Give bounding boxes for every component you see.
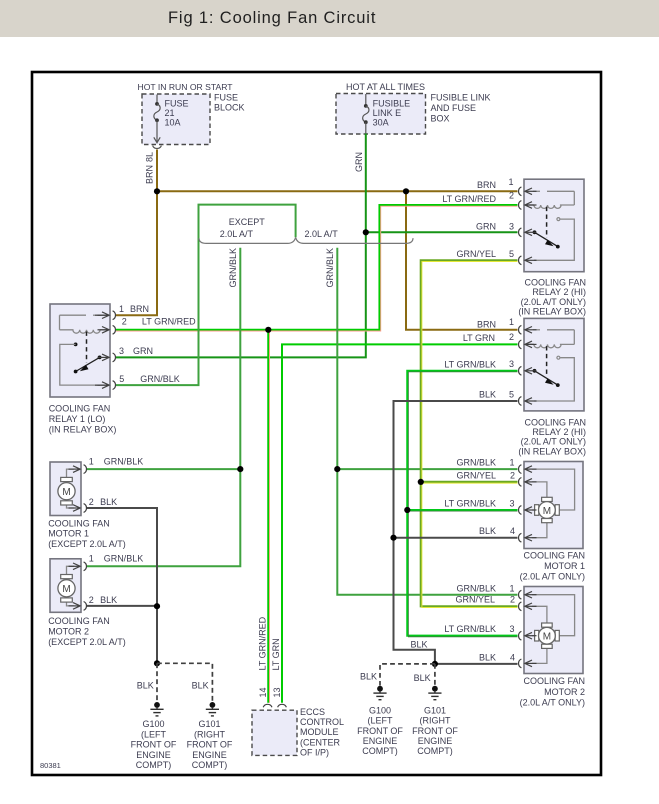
wire LT GRN/RED relay 1 pin 2 to relay 2 (upper) pin 2 xyxy=(116,191,518,332)
svg-text:BLK: BLK xyxy=(100,497,117,507)
label EXCEPT 2.0L A/T xyxy=(220,217,265,239)
relay 1 pin 2 arrow xyxy=(100,327,109,334)
wire BRN from fuse 21 to relay 1 pin 1 xyxy=(116,150,157,316)
svg-text:2.0L A/T: 2.0L A/T xyxy=(220,229,254,239)
svg-text:RELAY 2 (HI): RELAY 2 (HI) xyxy=(532,287,586,297)
relay 2 upper pin 2 arrow xyxy=(525,202,534,209)
svg-text:3: 3 xyxy=(510,499,515,509)
cooling fan motor 1 (2.0L A/T only) box xyxy=(524,462,583,549)
svg-text:BLK: BLK xyxy=(100,595,117,605)
svg-text:GRN/BLK: GRN/BLK xyxy=(140,374,180,384)
svg-text:GRN: GRN xyxy=(476,222,496,232)
cooling fan relay 1 (LO) box xyxy=(50,304,110,397)
svg-text:M: M xyxy=(62,487,70,498)
cooling fan motor 2 (2.0L A/T only) box xyxy=(524,587,583,674)
motor 2 right caption xyxy=(520,676,585,707)
svg-text:BLK: BLK xyxy=(411,640,428,650)
wire BLK right ground junction to right motor 2 pin 4 xyxy=(435,652,518,664)
svg-text:OF I/P): OF I/P) xyxy=(300,747,329,757)
svg-text:3: 3 xyxy=(509,359,514,369)
svg-text:FUSE: FUSE xyxy=(214,93,238,103)
motor 1 right internal leads xyxy=(532,469,575,538)
svg-text:1: 1 xyxy=(89,554,94,564)
svg-text:HOT AT ALL TIMES: HOT AT ALL TIMES xyxy=(346,82,425,92)
ECCS control module (dashed box) xyxy=(252,707,344,757)
svg-text:GRN/BLK: GRN/BLK xyxy=(456,458,496,468)
junction BLK left motor 2 xyxy=(154,603,160,609)
relay 1 coil circuit xyxy=(60,315,102,333)
junction BLK right grounds xyxy=(432,661,438,667)
wire GRN/BLK branch to left motor 1 pin 1 xyxy=(86,468,240,470)
motor 1 right pin 1 connector xyxy=(519,465,537,474)
wire GRN branch to cooling fan relay 2 (upper) pin 3 xyxy=(366,222,518,233)
svg-text:BRN: BRN xyxy=(477,180,496,190)
dashed BLK lead to ground G100 right xyxy=(360,664,435,686)
svg-text:2: 2 xyxy=(89,595,94,605)
wire GRN/BLK relay 1 pin 5 up and over to variant brace xyxy=(116,205,296,386)
svg-text:1: 1 xyxy=(510,458,515,468)
svg-text:(EXCEPT 2.0L A/T): (EXCEPT 2.0L A/T) xyxy=(48,539,126,549)
motor 1 right pin 3 connector xyxy=(519,506,537,515)
wire BLK left motor 1 pin 2 down to left ground junction xyxy=(86,508,157,663)
svg-text:ENGINE: ENGINE xyxy=(418,736,453,746)
svg-text:M: M xyxy=(543,506,551,517)
svg-text:GRN/BLK: GRN/BLK xyxy=(456,584,496,594)
label GRN/YEL right motor 2 pin 2 xyxy=(455,594,515,604)
svg-text:LT GRN: LT GRN xyxy=(463,333,495,343)
svg-text:ECCS: ECCS xyxy=(300,707,325,717)
cooling fan motor 2 (except 2.0L A/T) box xyxy=(50,559,81,613)
relay 2 upper pin 1 connector xyxy=(519,187,537,196)
relay 2 upper caption xyxy=(518,278,586,317)
svg-text:LT GRN/BLK: LT GRN/BLK xyxy=(444,359,496,369)
relay 2 lower pin 5 connector xyxy=(519,397,537,406)
svg-text:ENGINE: ENGINE xyxy=(136,750,171,760)
svg-text:2: 2 xyxy=(509,191,514,201)
svg-text:ENGINE: ENGINE xyxy=(363,736,398,746)
svg-text:LT GRN/RED: LT GRN/RED xyxy=(142,317,196,327)
wire LT GRN/BLK relay 2 (lower) pin 3 to right motors pin 3 xyxy=(407,359,517,637)
svg-text:8L: 8L xyxy=(145,152,155,162)
wire GRN from fusible link to relay 1 pin 3 xyxy=(116,134,366,358)
motor 1 right caption xyxy=(520,550,585,581)
fuse block (dashed box) xyxy=(138,82,245,145)
ground G100 (left front of engine compt) right side xyxy=(357,686,403,756)
svg-text:4: 4 xyxy=(510,526,515,536)
junction GRN/BLK right xyxy=(334,466,340,472)
dashed BLK lead to ground G101 left xyxy=(157,663,212,701)
svg-text:2: 2 xyxy=(509,332,514,342)
svg-text:4: 4 xyxy=(510,652,515,662)
svg-text:LT GRN: LT GRN xyxy=(271,638,281,670)
svg-text:BLK: BLK xyxy=(137,681,154,691)
fusible link value labels xyxy=(373,99,411,128)
relay 2 upper switch arm xyxy=(533,230,560,248)
svg-text:(CENTER: (CENTER xyxy=(300,737,340,747)
motor 1 left caption xyxy=(48,518,126,549)
svg-text:2: 2 xyxy=(510,594,515,604)
wire GRN/YEL branch to right motor 1 pin 2 xyxy=(421,470,518,483)
svg-text:COOLING FAN: COOLING FAN xyxy=(523,550,585,560)
svg-text:RELAY 1 (LO): RELAY 1 (LO) xyxy=(49,414,106,424)
motor 2 right pin 2 connector xyxy=(519,602,537,611)
fusible link E 30A symbol xyxy=(363,94,369,134)
relay 2 lower fixed contact xyxy=(534,356,574,401)
svg-text:COOLING FAN: COOLING FAN xyxy=(48,616,110,626)
svg-text:2: 2 xyxy=(89,497,94,507)
ground G100 (left front of engine compt) xyxy=(131,702,177,770)
svg-text:M: M xyxy=(62,584,70,595)
relay 1 pin 2 connector xyxy=(98,325,116,334)
svg-text:GRN/YEL: GRN/YEL xyxy=(456,470,496,480)
svg-text:COMPT): COMPT) xyxy=(417,746,453,756)
motor 2 right internal leads xyxy=(532,595,575,664)
relay 1 pin labels xyxy=(119,304,196,384)
svg-text:FRONT OF: FRONT OF xyxy=(131,740,177,750)
svg-text:2: 2 xyxy=(122,317,127,327)
relay 1 caption xyxy=(49,404,117,435)
svg-text:COOLING FAN: COOLING FAN xyxy=(48,518,110,528)
wire GRN/BLK (2.0L A/T) down to right motors xyxy=(325,248,518,595)
dashed BLK lead to ground G100 left xyxy=(137,663,157,701)
relay 1 pin 1 connector xyxy=(98,311,116,320)
relay 1 pin 5 connector xyxy=(98,381,116,390)
svg-text:GRN/BLK: GRN/BLK xyxy=(228,248,238,288)
svg-text:BLK: BLK xyxy=(360,672,377,682)
svg-text:COOLING FAN: COOLING FAN xyxy=(49,404,111,414)
relay 1 pin 5 arrow xyxy=(95,382,109,389)
label LT GRN/BLK right motor 2 pin 3 xyxy=(444,624,514,634)
svg-text:BOX: BOX xyxy=(431,114,450,124)
svg-text:BLK: BLK xyxy=(479,390,496,400)
svg-text:COOLING FAN: COOLING FAN xyxy=(524,417,586,427)
svg-text:GRN/BLK: GRN/BLK xyxy=(325,248,335,288)
svg-text:MOTOR 1: MOTOR 1 xyxy=(544,561,585,571)
motor 2 left caption xyxy=(48,616,126,647)
relay 2 upper pin 1 arrow xyxy=(525,188,532,195)
svg-text:5: 5 xyxy=(119,374,124,384)
svg-text:ENGINE: ENGINE xyxy=(192,750,227,760)
relay 1 switch arm xyxy=(74,356,102,374)
svg-text:(IN RELAY BOX): (IN RELAY BOX) xyxy=(518,446,586,456)
svg-text:BRN: BRN xyxy=(477,320,496,330)
svg-text:LT GRN/BLK: LT GRN/BLK xyxy=(444,624,496,634)
svg-text:BLK: BLK xyxy=(479,652,496,662)
svg-text:COOLING FAN: COOLING FAN xyxy=(524,278,586,288)
svg-text:FRONT OF: FRONT OF xyxy=(412,726,458,736)
svg-text:(RIGHT: (RIGHT xyxy=(194,729,225,739)
svg-text:GRN: GRN xyxy=(133,346,153,356)
svg-text:EXCEPT: EXCEPT xyxy=(229,217,266,227)
wire BRN branch to cooling fan relay 2 (upper) pin 1 xyxy=(157,177,518,191)
svg-text:FUSE: FUSE xyxy=(165,99,189,109)
relay 2 upper coil circuit xyxy=(533,191,574,208)
wire LT GRN/BLK branch to right motor 1 pin 3 xyxy=(407,499,517,512)
motor 1 left pin labels xyxy=(89,456,144,507)
svg-text:10A: 10A xyxy=(165,118,181,128)
svg-text:MOTOR 2: MOTOR 2 xyxy=(544,687,585,697)
motor 2 right pin 4 connector xyxy=(519,659,537,668)
svg-text:BRN: BRN xyxy=(130,304,149,314)
svg-text:5: 5 xyxy=(509,390,514,400)
fuse 21 10A symbol xyxy=(153,95,162,149)
junction LT GRN/RED branch xyxy=(265,327,271,333)
title bar xyxy=(0,0,659,37)
ground G101 (right front of engine compt) right side xyxy=(412,686,458,756)
wire GRN/BLK (except 2.0L A/T) down to left motors xyxy=(86,248,240,567)
motor 2 left pin 2 connector xyxy=(69,602,87,611)
motor 2 left internal leads xyxy=(67,566,75,606)
motor 2 left motor symbol xyxy=(58,575,75,603)
svg-text:1: 1 xyxy=(509,317,514,327)
svg-text:3: 3 xyxy=(119,346,124,356)
wire BRN branch to cooling fan relay 2 (lower) pin 1 xyxy=(406,191,518,329)
motor 1 right pin 2 connector xyxy=(519,478,537,487)
svg-text:MOTOR 1: MOTOR 1 xyxy=(48,529,89,539)
svg-text:GRN/YEL: GRN/YEL xyxy=(456,249,496,259)
svg-text:1: 1 xyxy=(89,456,94,466)
svg-text:(LEFT: (LEFT xyxy=(367,716,393,726)
junction BLK right motor 1 xyxy=(390,535,396,541)
wire BLK left motor 2 pin 2 xyxy=(86,605,157,607)
ECCS pin 14 connector xyxy=(263,704,272,707)
motor 2 left pin 1 connector xyxy=(69,562,87,571)
junction GRN branch xyxy=(363,229,369,235)
svg-text:LT GRN/RED: LT GRN/RED xyxy=(258,616,268,670)
svg-text:CONTROL: CONTROL xyxy=(300,717,344,727)
dashed BLK lead to ground G101 right xyxy=(414,664,435,686)
relay 2 upper actuation dashed link xyxy=(546,207,548,238)
wire GRN/BLK branch to right motor 1 pin 1 xyxy=(337,458,517,470)
motor 2 right pin 1 connector xyxy=(519,590,537,599)
svg-text:BLK: BLK xyxy=(414,673,431,683)
svg-text:2: 2 xyxy=(510,470,515,480)
svg-text:(IN RELAY BOX): (IN RELAY BOX) xyxy=(49,425,117,435)
diagram border frame xyxy=(32,72,601,775)
motor 2 right pin 3 connector xyxy=(519,631,537,640)
svg-text:FRONT OF: FRONT OF xyxy=(187,740,233,750)
svg-text:RELAY 2 (HI): RELAY 2 (HI) xyxy=(532,427,586,437)
fusible link and fuse box (dashed box) xyxy=(336,82,491,134)
relay 2 lower pin 5 arrow xyxy=(525,398,532,405)
motor 1 right motor symbol xyxy=(535,497,560,522)
svg-text:BLK: BLK xyxy=(192,681,209,691)
motor 2 right motor symbol xyxy=(535,623,560,648)
relay 2 lower coil circuit xyxy=(533,330,574,348)
svg-text:BLK: BLK xyxy=(479,526,496,536)
relay 1 fixed contact xyxy=(60,343,100,386)
ECCS pin 13 connector xyxy=(278,704,287,707)
relay 2 lower pin 1 arrow xyxy=(525,327,532,334)
svg-text:5: 5 xyxy=(509,249,514,259)
svg-text:FUSIBLE LINK: FUSIBLE LINK xyxy=(431,93,491,103)
svg-text:(IN RELAY BOX): (IN RELAY BOX) xyxy=(518,307,586,317)
junction BRN at fuse drop xyxy=(154,188,160,194)
svg-text:HOT IN RUN OR START: HOT IN RUN OR START xyxy=(138,82,234,92)
svg-text:GRN/YEL: GRN/YEL xyxy=(455,594,495,604)
svg-text:LINK E: LINK E xyxy=(373,108,402,118)
svg-text:FUSIBLE: FUSIBLE xyxy=(373,99,411,109)
cooling fan motor 1 (except 2.0L A/T) box xyxy=(50,462,81,516)
relay 2 upper pin 3 arrow xyxy=(525,229,532,236)
relay 2 upper pin 3 connector xyxy=(519,228,537,237)
svg-text:3: 3 xyxy=(509,222,514,232)
relay 2 lower actuation dashed link xyxy=(546,346,548,377)
variant split brace xyxy=(199,237,413,243)
svg-text:21: 21 xyxy=(165,108,175,118)
svg-text:(2.0L A/T ONLY): (2.0L A/T ONLY) xyxy=(521,437,586,447)
relay 2 lower pin 1 connector xyxy=(519,325,537,334)
svg-text:(EXCEPT 2.0L A/T): (EXCEPT 2.0L A/T) xyxy=(48,637,126,647)
svg-text:AND FUSE: AND FUSE xyxy=(431,103,477,113)
svg-text:COMPT): COMPT) xyxy=(136,760,172,770)
motor 2 right pin arrows xyxy=(525,591,532,666)
relay 2 lower switch arm xyxy=(533,369,560,387)
junction GRN/BLK left xyxy=(237,466,243,472)
svg-text:1: 1 xyxy=(119,304,124,314)
svg-text:GRN/BLK: GRN/BLK xyxy=(104,456,144,466)
svg-text:13: 13 xyxy=(272,687,282,697)
svg-text:GRN: GRN xyxy=(354,152,364,172)
relay 2 upper fixed contact xyxy=(534,218,574,261)
svg-text:30A: 30A xyxy=(373,118,389,128)
relay 2 upper pin 5 connector xyxy=(519,256,537,265)
motor 1 right pin arrows xyxy=(525,466,532,541)
svg-text:14: 14 xyxy=(258,687,268,697)
svg-text:(2.0L A/T ONLY): (2.0L A/T ONLY) xyxy=(521,297,586,307)
svg-text:(2.0L A/T ONLY): (2.0L A/T ONLY) xyxy=(520,572,585,582)
motor 1 left pin 1 connector xyxy=(69,465,87,474)
relay 2 lower caption xyxy=(518,417,586,456)
motor 2 left pin labels xyxy=(89,554,144,605)
svg-text:(LEFT: (LEFT xyxy=(141,729,167,739)
svg-text:BRN: BRN xyxy=(145,165,155,184)
motor 1 right pin 4 connector xyxy=(519,533,537,542)
relay 2 lower pin 3 connector xyxy=(519,366,537,375)
label GRN/BLK right motor 2 pin 1 xyxy=(456,584,514,594)
ground G101 (right front of engine compt) xyxy=(187,702,233,770)
svg-text:(RIGHT: (RIGHT xyxy=(420,716,451,726)
svg-text:1: 1 xyxy=(510,584,515,594)
svg-text:LT GRN/RED: LT GRN/RED xyxy=(442,194,496,204)
svg-text:MOTOR 2: MOTOR 2 xyxy=(48,627,89,637)
svg-text:3: 3 xyxy=(510,624,515,634)
wire LT GRN from ECCS pin 13 to relay 2 (lower) pin 2 xyxy=(271,332,517,703)
cooling fan relay 2 (HI) upper box xyxy=(524,179,584,272)
junction BLK left grounds xyxy=(154,660,160,666)
relay 2 lower pin 3 arrow xyxy=(525,368,532,375)
motor 1 left pin 2 arrow xyxy=(73,505,80,512)
title text xyxy=(168,9,376,28)
relay 2 lower pin 2 connector xyxy=(519,340,537,349)
svg-text:FRONT OF: FRONT OF xyxy=(357,726,403,736)
svg-text:COMPT): COMPT) xyxy=(362,746,398,756)
wire BLK relay 2 (lower) pin 5 down to right ground junction xyxy=(394,390,518,664)
junction GRN/YEL xyxy=(418,479,424,485)
motor 1 left pin 2 connector xyxy=(69,504,87,513)
fuse 21 value labels xyxy=(165,99,189,128)
svg-text:(2.0L A/T ONLY): (2.0L A/T ONLY) xyxy=(520,697,585,707)
relay 1 pin 3 connector xyxy=(98,353,116,362)
svg-text:2.0L A/T: 2.0L A/T xyxy=(305,229,339,239)
svg-text:80381: 80381 xyxy=(40,761,61,770)
motor 1 left pin 1 arrow xyxy=(73,466,80,473)
wire LT GRN/RED branch down to ECCS pin 14 xyxy=(258,330,270,703)
svg-text:LT GRN/BLK: LT GRN/BLK xyxy=(444,499,496,509)
motor 2 left pin 1 arrow xyxy=(73,563,80,570)
svg-text:M: M xyxy=(543,632,551,643)
svg-text:MODULE: MODULE xyxy=(300,727,339,737)
motor 1 left motor symbol xyxy=(58,477,75,505)
svg-text:COOLING FAN: COOLING FAN xyxy=(523,676,585,686)
svg-text:G101: G101 xyxy=(198,719,220,729)
relay 1 actuation dashed link xyxy=(86,332,88,364)
motor 2 left pin 2 arrow xyxy=(73,603,80,610)
svg-text:G101: G101 xyxy=(424,706,446,716)
relay 2 upper pin 5 arrow xyxy=(525,257,532,264)
svg-text:BLOCK: BLOCK xyxy=(214,103,245,113)
svg-text:COMPT): COMPT) xyxy=(192,760,228,770)
svg-text:G100: G100 xyxy=(142,719,164,729)
relay 2 upper pin 2 connector xyxy=(519,201,537,210)
relay 1 pin 1 arrow xyxy=(95,312,109,319)
relay 2 lower pin 2 arrow xyxy=(525,341,534,348)
junction BRN at relay 2 branch xyxy=(403,188,409,194)
junction LT GRN/BLK xyxy=(404,507,410,513)
svg-text:GRN/BLK: GRN/BLK xyxy=(104,554,144,564)
svg-text:1: 1 xyxy=(509,177,514,187)
cooling fan relay 2 (HI) lower box xyxy=(524,318,584,411)
relay 1 pin 3 arrow xyxy=(102,354,109,361)
motor 1 left internal leads xyxy=(67,469,75,508)
svg-text:G100: G100 xyxy=(369,706,391,716)
wire GRN/YEL relay 2 (upper) pin 5 to right motors pin 2 xyxy=(421,249,518,608)
wire BLK branch to right motor 1 pin 4 xyxy=(394,526,518,538)
